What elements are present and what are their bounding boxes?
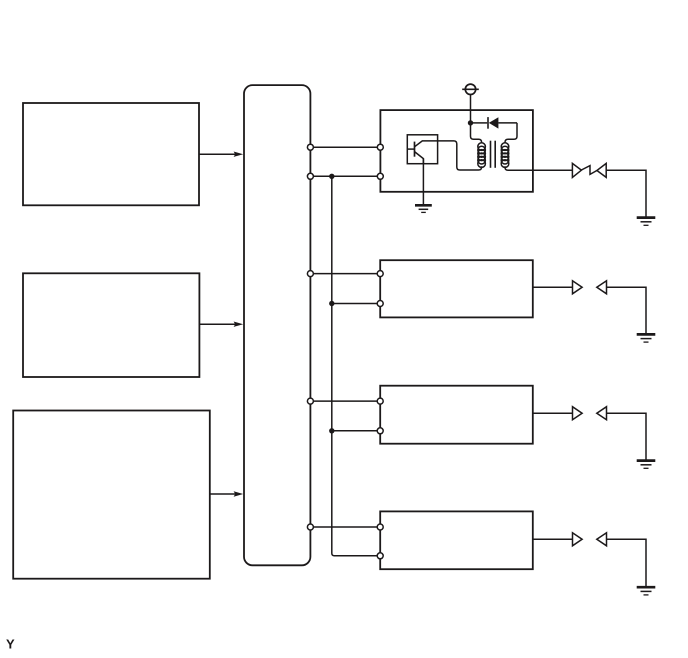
wire pair3 line b [332, 430, 380, 432]
igniter module M1 (ignition coil with igniter) [380, 110, 533, 192]
ground (igniter emitter) [415, 205, 432, 212]
wire collector to primary bottom [438, 141, 482, 170]
wire spark gap to ground row3 [606, 413, 646, 460]
junction dot pair3 [329, 428, 334, 433]
wire diode to secondary top [505, 123, 517, 143]
node circle connector pin 1b [307, 173, 313, 179]
node circle M4 pin a [377, 524, 383, 530]
wire pair2 line a [310, 273, 380, 275]
junction dot pair1 [329, 174, 334, 179]
wire spark gap to ground row1 [606, 170, 646, 217]
coil module M3 [380, 386, 533, 444]
node circle M1 pin a [377, 144, 383, 150]
wire arrow B2 to ECU connector [199, 322, 243, 327]
wire pair1 line a [310, 146, 380, 148]
wire arrow B1 to ECU connector [199, 152, 243, 157]
coil module M2 [380, 260, 533, 317]
transformer T1 primary winding [478, 143, 486, 168]
node circle M2 pin b [377, 301, 383, 307]
node circle connector pin 1a [307, 144, 313, 150]
spark gap row2 [573, 281, 607, 294]
transformer T1 core [491, 141, 496, 168]
spark gap row1 (electrodes with arc) [572, 163, 606, 177]
bus wire (IGT common vertical) [332, 176, 378, 556]
node circle M1 pin b [377, 173, 383, 179]
junction dot supply node [468, 120, 473, 125]
node circle M2 pin a [377, 271, 383, 277]
ground row1 [637, 218, 656, 226]
wire arrow B3 to ECU connector [210, 491, 243, 496]
block B3 (bottom-left ECU block) [13, 411, 210, 579]
ground row3 [637, 461, 656, 469]
block B2 (middle-left sensor block) [23, 273, 199, 377]
wire spark gap to ground row4 [606, 539, 646, 587]
node circle M4 pin b [377, 553, 383, 559]
wire secondary bottom / HT output row1 [505, 166, 572, 170]
node circle connector pin 4a [307, 524, 313, 530]
svg-text:Y: Y [6, 637, 15, 652]
wire pair2 line b [332, 303, 380, 305]
node circle M3 pin b [377, 428, 383, 434]
junction dot pair2 [329, 301, 334, 306]
ground row2 [637, 334, 656, 342]
connector J1 (rounded rectangle) [244, 85, 310, 565]
wire M3 output [533, 412, 573, 414]
wire pair3 line a [310, 400, 380, 402]
ground row4 [637, 587, 656, 595]
wire pair4 line a [310, 526, 380, 528]
spark arc zigzag row1 [581, 166, 597, 175]
coil module M4 [380, 511, 533, 569]
node circle M3 pin a [377, 398, 383, 404]
terminal +B (circle with bar) [462, 84, 479, 94]
wire M2 output [533, 286, 573, 288]
wire spark gap to ground row2 [606, 287, 646, 334]
wire M4 output [533, 538, 573, 540]
diode D1 [473, 117, 517, 129]
wire terminal to node [470, 95, 472, 123]
wire pair1 line b [310, 175, 380, 177]
spark gap row3 [573, 407, 607, 420]
node circle connector pin 3a [307, 398, 313, 404]
transistor Q1 (igniter power transistor) [407, 135, 437, 164]
node circle connector pin 2a [307, 271, 313, 277]
wire emitter to ground [422, 159, 424, 205]
spark gap row4 [573, 533, 607, 546]
wire supply node to primary top [471, 123, 482, 143]
block B1 (top-left sensor block) [23, 103, 199, 205]
transformer T1 secondary winding [501, 143, 509, 168]
